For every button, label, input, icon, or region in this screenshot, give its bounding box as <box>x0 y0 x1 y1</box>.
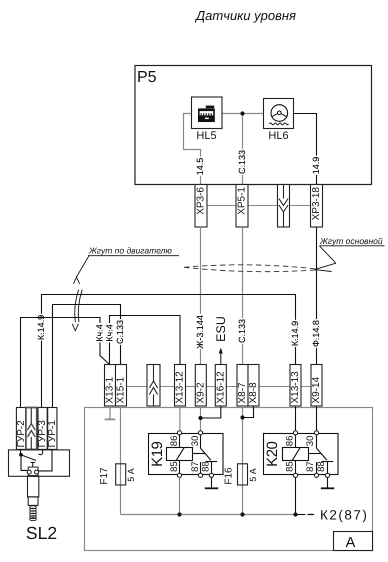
pin 86 <box>293 431 297 435</box>
svg-text:X16-12: X16-12 <box>215 371 226 404</box>
wire pivot to plug pin 1 <box>21 455 27 471</box>
connector ГУР-1 <box>47 408 58 450</box>
svg-text:С.133: С.133 <box>237 319 247 343</box>
harness joint symbol (row 1) <box>278 185 290 228</box>
indicator lamp HL6 (coolant level) <box>264 99 294 129</box>
wire: HL5 left to 14.5 riser (grey) <box>184 114 201 185</box>
node ESU with arrow <box>220 352 222 365</box>
pin 30 <box>314 431 318 435</box>
wire: X13-12 to K19 pin 86 (grey) <box>179 406 181 431</box>
wire: X13-13 to K20 pin 86 (black) <box>295 406 297 431</box>
connector X13-1 <box>105 365 116 407</box>
svg-text:X13-13: X13-13 <box>290 371 301 404</box>
pin 87 <box>198 473 202 477</box>
fuse F17 5A <box>116 464 126 485</box>
bus wire to К2(87) <box>121 514 296 516</box>
svg-text:87: 87 <box>305 461 316 472</box>
svg-text:ГУР-1: ГУР-1 <box>47 420 58 448</box>
connector XP3-6 <box>195 185 207 228</box>
sensor plug top <box>28 467 38 476</box>
svg-text:14.5: 14.5 <box>195 158 205 176</box>
svg-text:5 А: 5 А <box>126 468 136 482</box>
svg-text:85: 85 <box>169 461 180 472</box>
relay K20 <box>264 434 339 475</box>
plug pins <box>27 470 31 474</box>
svg-text:F16: F16 <box>224 467 235 485</box>
svg-text:F17: F17 <box>99 467 110 485</box>
junction node bus/K19-85 <box>177 512 181 516</box>
junction node at HL5/HL6 wire <box>240 111 244 115</box>
pin 85 <box>293 473 297 477</box>
svg-text:Ф.14.8: Ф.14.8 <box>311 320 321 347</box>
wire: X9-14 to K20 pin 30 (black) <box>316 406 318 431</box>
svg-text:14.9: 14.9 <box>311 157 321 175</box>
pin 86 <box>177 431 181 435</box>
wire: X9-2 to K19 pin 30 (grey) <box>200 406 202 431</box>
wire: X8-7 through F16 to bus (grey) <box>242 406 244 515</box>
wire Кч.4: ГУР-2 to X13-1 (black) <box>21 318 110 408</box>
wire: X16-12 elbow to X9-2 (black) <box>201 406 221 418</box>
junction node X9-2/X16-12 <box>198 416 202 420</box>
svg-text:88: 88 <box>316 461 327 472</box>
harness bundle ellipse (dashed) <box>184 265 318 272</box>
connector X9-14 <box>311 365 322 407</box>
harness boundary marks (left) <box>72 277 82 331</box>
box label A <box>334 532 373 551</box>
svg-text:XP3-18: XP3-18 <box>311 187 322 221</box>
svg-text:30: 30 <box>190 436 201 447</box>
svg-text:HL6: HL6 <box>268 130 288 142</box>
svg-text:30: 30 <box>305 436 316 447</box>
switch pivot node <box>20 449 22 454</box>
connector ГУР-3 <box>37 408 48 450</box>
switch blade <box>21 455 36 461</box>
relay K19 <box>149 434 224 475</box>
svg-text:Жгут по двигателю: Жгут по двигателю <box>88 246 172 256</box>
svg-text:X13-12: X13-12 <box>175 371 186 404</box>
svg-text:86: 86 <box>169 436 180 447</box>
svg-text:SL2: SL2 <box>26 523 57 543</box>
level sensor SL2 body <box>9 450 70 476</box>
wire: HL6 right to 14.9 riser (black) <box>294 114 317 185</box>
connector X15-1 <box>116 365 127 407</box>
connector X13-12 <box>175 365 186 407</box>
connector X8-8 <box>248 365 259 407</box>
svg-text:X9-14: X9-14 <box>311 376 322 403</box>
svg-text:K19: K19 <box>149 441 166 466</box>
junction node bus/F16 <box>240 512 244 516</box>
ground at K19 pin 88 <box>205 477 218 488</box>
wire: HL5 to HL6 with C.133 tap (grey) <box>222 113 264 115</box>
svg-text:X9-2: X9-2 <box>195 382 206 404</box>
svg-text:XP5-1: XP5-1 <box>237 187 248 215</box>
junction node bus/K20-85 <box>293 512 297 516</box>
connector ГУР-2 <box>16 408 27 450</box>
wire: X8-8 elbow to X8-7 (black) <box>243 406 254 418</box>
sensor thread <box>30 506 37 521</box>
harness joint symbol (row 2) <box>147 365 160 407</box>
svg-text:Кч.4: Кч.4 <box>95 324 105 341</box>
connector XP3-18 <box>311 185 323 228</box>
instrument panel box P5 <box>135 66 372 185</box>
svg-text:X13-1: X13-1 <box>105 376 116 403</box>
connector XP5-1 <box>236 185 248 228</box>
ГУР-3 stub <box>39 450 43 455</box>
svg-text:HL5: HL5 <box>196 130 216 142</box>
svg-text:A: A <box>346 535 356 551</box>
svg-text:X8-8: X8-8 <box>248 382 259 404</box>
svg-text:XP3-6: XP3-6 <box>196 187 207 215</box>
harness joint symbol (ГУР row) <box>26 408 37 450</box>
wire: XP3-6 down to X9-2 (grey) <box>200 227 202 365</box>
connector X13-13 <box>290 365 301 407</box>
ground at K20 pin 88 <box>321 477 334 488</box>
wire ГУР-1 to plug pin 2 <box>39 449 53 471</box>
connector X9-2 <box>195 365 206 407</box>
svg-text:X15-1: X15-1 <box>116 376 127 403</box>
wire: X15-1 through F17 to bus (grey) <box>120 406 122 515</box>
ECU box (A) <box>85 408 373 551</box>
indicator lamp HL5 (battery charge) <box>192 97 223 129</box>
svg-text:88: 88 <box>201 461 212 472</box>
wire С.133: ГУР-1 to X15-1 (black) <box>53 305 121 408</box>
wire: K19 pin 85 to bus (grey) <box>179 477 181 514</box>
svg-text:Ж-3.144: Ж-3.144 <box>195 315 205 349</box>
wire: XP5-1 down to X8-7 (grey) <box>242 227 244 365</box>
switch fixed contact <box>30 461 35 463</box>
wire К.14.9: ГУР-3 to X13-13 (black) <box>42 295 296 408</box>
svg-text:К.14.9: К.14.9 <box>290 321 300 346</box>
connector row 1 mating line <box>195 205 322 207</box>
svg-text:Датчики уровня: Датчики уровня <box>194 8 296 23</box>
pin 87 <box>314 473 318 477</box>
svg-text:С.133: С.133 <box>115 320 125 344</box>
svg-text:Кч.4: Кч.4 <box>104 324 114 341</box>
svg-text:86: 86 <box>284 436 295 447</box>
svg-text:87: 87 <box>190 461 201 472</box>
wire: K20 pin 85 to bus (black) <box>295 477 297 514</box>
svg-text:P5: P5 <box>137 69 157 86</box>
svg-text:C.133: C.133 <box>237 150 247 174</box>
connector row 2 mating line <box>105 386 323 388</box>
wire: XP3-18 down to X9-14 (black) <box>316 227 318 365</box>
svg-text:K20: K20 <box>264 441 281 466</box>
svg-text:К2(87): К2(87) <box>320 508 368 523</box>
junction node X8-7/X8-8 <box>240 415 244 419</box>
svg-text:85: 85 <box>284 461 295 472</box>
connector X8-7 <box>237 365 248 407</box>
svg-text:5 А: 5 А <box>248 468 258 482</box>
fuse F16 5A <box>238 464 248 485</box>
wire Кч.4: X13-1 to X13-12 (black) <box>110 316 181 365</box>
pin 88 <box>209 473 213 477</box>
svg-text:ESU: ESU <box>214 316 228 342</box>
ground under X13-1 <box>105 406 116 419</box>
sensor plug body <box>28 476 39 505</box>
pin 85 <box>177 473 181 477</box>
svg-text:X8-7: X8-7 <box>237 382 248 404</box>
svg-text:Жгут основной: Жгут основной <box>319 236 383 246</box>
pin 88 <box>325 473 329 477</box>
pin 30 <box>198 431 202 435</box>
connector X16-12 <box>215 365 226 407</box>
svg-text:К.14.9: К.14.9 <box>36 315 46 340</box>
